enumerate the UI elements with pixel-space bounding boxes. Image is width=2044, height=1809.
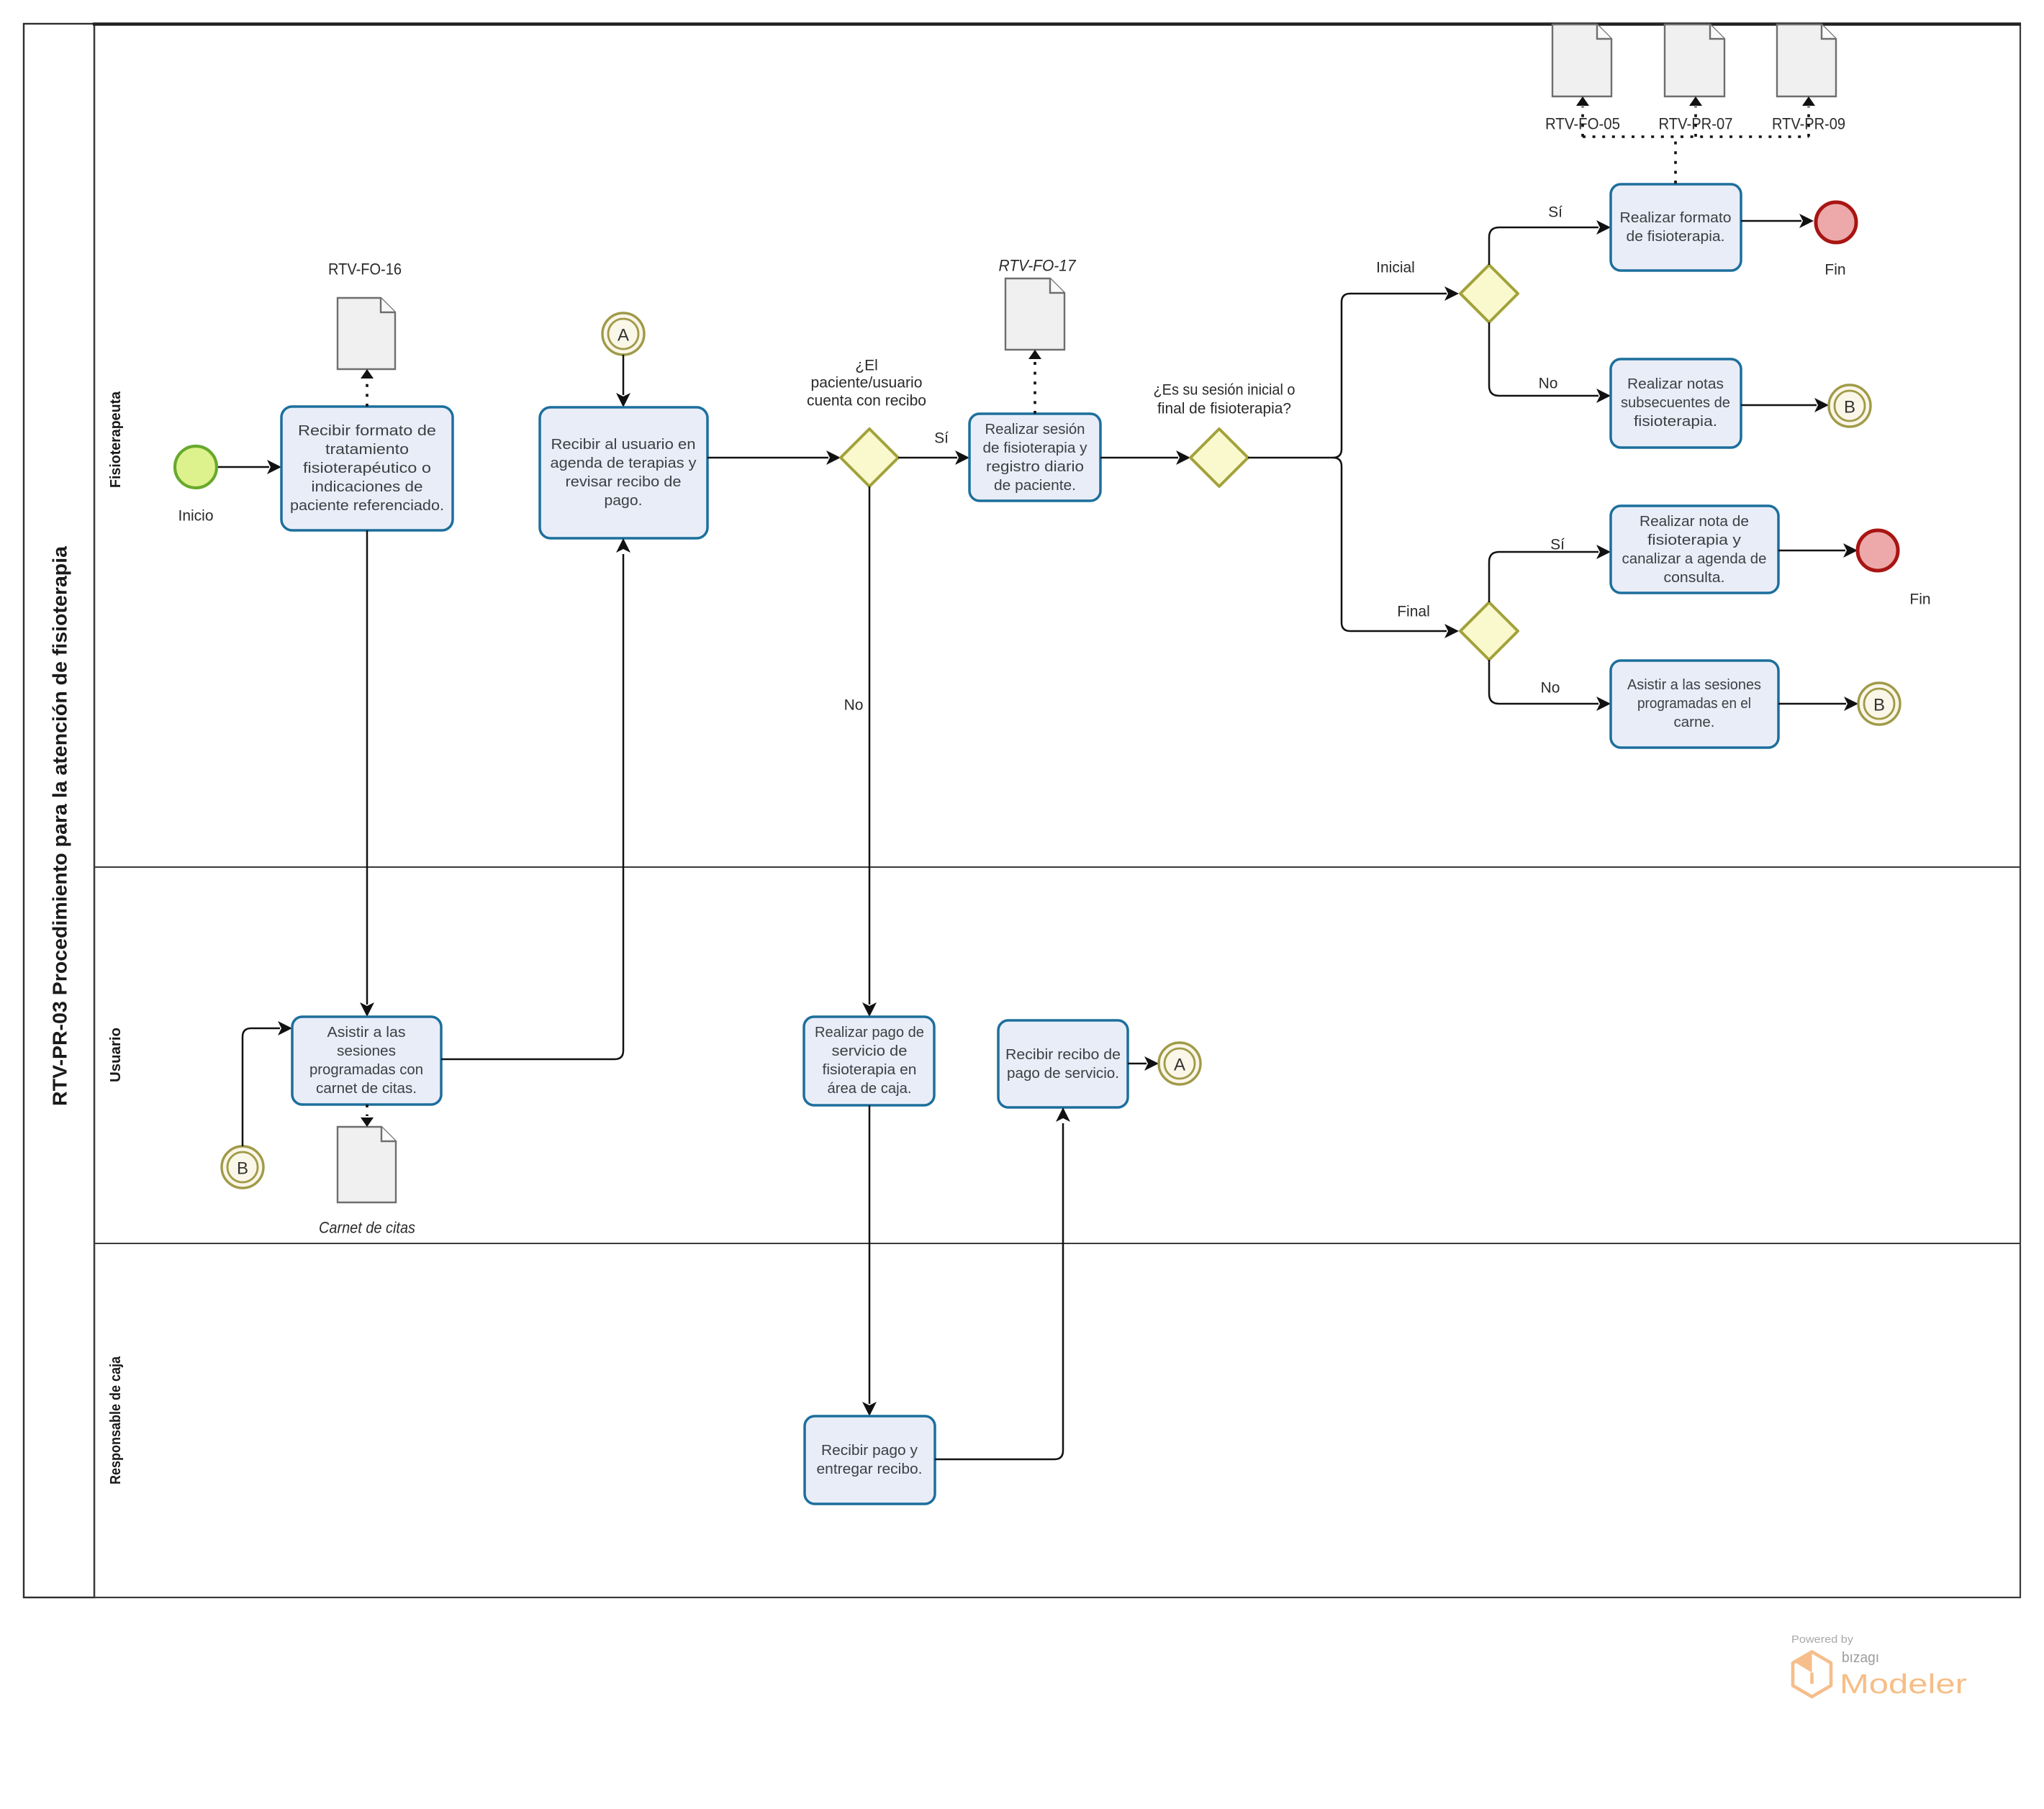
sequence flow: Realizar nota to end Fin 2 [1778, 543, 1858, 558]
svg-text:No: No [1541, 680, 1560, 697]
task: Realizar notas subsecuentes [1611, 359, 1741, 448]
svg-text:RTV-FO-16: RTV-FO-16 [328, 260, 402, 278]
document RTV-FO-05 [1545, 24, 1620, 133]
sequence flow: gateway Final to task Asistir carne [1489, 660, 1611, 711]
sequence flow: gateway Inicial to task Realizar formato [1489, 220, 1611, 265]
svg-text:carne.: carne. [1674, 715, 1715, 730]
svg-text:Fisioterapeuta: Fisioterapeuta [108, 391, 124, 488]
link event B (after asistir carne) [1858, 683, 1900, 725]
lane label Fisioterapeuta [108, 391, 124, 488]
sequence flow: task Recibir formato down to task Asistir (Usuario) [360, 530, 374, 1017]
sequence flow: gateway Final to task Realizar nota [1489, 545, 1611, 602]
task: Asistir a las sesiones programadas en el carne [1611, 661, 1778, 748]
svg-text:B: B [237, 1159, 248, 1179]
link event B (Usuario lane, incoming) [222, 1146, 263, 1188]
svg-text:A: A [618, 326, 629, 345]
lane label Responsable de caja [108, 1356, 124, 1484]
document RTV-FO-16 [328, 260, 402, 370]
svg-text:Inicial: Inicial [1376, 260, 1415, 276]
sequence flow: gateway recibo to task Realizar sesion [898, 450, 969, 465]
svg-text:Responsable de caja: Responsable de caja [108, 1356, 124, 1484]
svg-text:Recibir recibo de: Recibir recibo de [1005, 1047, 1121, 1063]
association: task Realizar sesion to RTV-FO-17 [1028, 350, 1041, 414]
label Inicial [1376, 260, 1415, 276]
svg-text:área de caja.: área de caja. [828, 1081, 912, 1097]
svg-text:revisar recibo de: revisar recibo de [566, 474, 682, 490]
sequence flow: start to task Recibir formato [217, 460, 281, 474]
label No (gateway Inicial) [1539, 376, 1558, 392]
gateway: Es su sesion inicial o final [1154, 382, 1295, 487]
task: Realizar sesion de fisioterapia y registro diario [969, 414, 1100, 501]
task: Realizar nota de fisioterapia y canalizar [1611, 506, 1778, 593]
lane divider Usuario/Responsable de caja [94, 1243, 2020, 1244]
task: Realizar formato de fisioterapia [1611, 184, 1741, 271]
sequence flow: Recibir recibo to link A [1128, 1056, 1159, 1071]
svg-text:subsecuentes de: subsecuentes de [1621, 395, 1730, 411]
svg-text:tratamiento: tratamiento [325, 442, 409, 458]
svg-text:Modeler: Modeler [1840, 1669, 1967, 1700]
svg-text:fisioterapia en: fisioterapia en [823, 1062, 917, 1078]
task: Recibir pago y entregar recibo [805, 1416, 935, 1504]
sequence flow: gateway Inicial to task Realizar notas [1489, 322, 1611, 403]
svg-text:canalizar a agenda de: canalizar a agenda de [1622, 551, 1767, 567]
lane divider Fisioterapeuta/Usuario [94, 866, 2020, 868]
svg-text:Realizar pago de: Realizar pago de [815, 1025, 924, 1040]
svg-text:Recibir al usuario en: Recibir al usuario en [551, 437, 696, 453]
svg-text:registro diario: registro diario [986, 459, 1084, 475]
svg-text:Usuario: Usuario [108, 1028, 124, 1082]
svg-text:carnet de citas.: carnet de citas. [316, 1081, 417, 1097]
svg-text:B: B [1844, 398, 1855, 417]
svg-text:Carnet de citas: Carnet de citas [319, 1219, 415, 1237]
svg-text:Recibir pago y: Recibir pago y [821, 1443, 918, 1459]
label No (gateway recibo) [844, 697, 864, 714]
svg-text:RTV-PR-09: RTV-PR-09 [1772, 115, 1845, 133]
svg-text:de fisioterapia.: de fisioterapia. [1627, 229, 1725, 245]
svg-text:Asistir a las sesiones: Asistir a las sesiones [1627, 677, 1761, 693]
gateway Inicial branch [1460, 265, 1518, 322]
svg-text:paciente/usuario: paciente/usuario [811, 375, 923, 391]
svg-text:RTV-FO-05: RTV-FO-05 [1545, 115, 1620, 133]
svg-text:de fisioterapia y: de fisioterapia y [983, 440, 1087, 456]
svg-text:Fin: Fin [1824, 262, 1845, 278]
svg-text:programadas con: programadas con [309, 1062, 423, 1078]
svg-text:pago.: pago. [605, 493, 643, 509]
sequence flow: Recibir pago right up to Recibir recibo [935, 1107, 1070, 1459]
pool title [49, 546, 71, 1106]
svg-text:consulta.: consulta. [1664, 570, 1725, 586]
svg-text:¿Es su sesión inicial o: ¿Es su sesión inicial o [1154, 382, 1295, 399]
document RTV-PR-07 [1659, 24, 1733, 133]
sequence flow: gateway inicial/final fork to gateway Final [1333, 458, 1459, 638]
gateway: El paciente/usuario cuenta con recibo [807, 358, 926, 487]
svg-text:Asistir a las: Asistir a las [327, 1025, 406, 1040]
task: Recibir formato de tratamiento fisioterapeutico [281, 407, 453, 530]
task: Asistir a las sesiones programadas con carnet [292, 1017, 441, 1105]
label Si (gateway Inicial) [1548, 204, 1563, 221]
sequence flow: gateway recibo down to task Realizar pago (Usuario) [862, 486, 877, 1017]
end event Fin (final) [1858, 530, 1931, 608]
svg-text:A: A [1174, 1056, 1185, 1075]
pool outer frame (title band) [24, 24, 94, 1597]
svg-text:No: No [844, 697, 864, 714]
svg-text:RTV-FO-17: RTV-FO-17 [999, 257, 1077, 275]
association: task Asistir to Carnet de citas [361, 1105, 374, 1127]
svg-text:Realizar notas: Realizar notas [1627, 376, 1724, 392]
svg-text:fisioterapéutico o: fisioterapéutico o [303, 461, 431, 476]
sequence flow: A to task Recibir al usuario [616, 355, 630, 407]
document Carnet de citas [319, 1127, 415, 1237]
association: task to RTV-FO-16 [361, 369, 374, 407]
start event Inicio [175, 446, 217, 525]
sequence flow: Realizar notas to link B [1741, 398, 1829, 412]
svg-text:Realizar formato: Realizar formato [1620, 210, 1732, 226]
svg-text:Fin: Fin [1909, 591, 1930, 608]
link event B (after notas) [1829, 385, 1871, 427]
svg-text:Powered by: Powered by [1791, 1634, 1854, 1646]
svg-text:programadas en el: programadas en el [1637, 696, 1751, 712]
label Si (gateway Final) [1550, 537, 1565, 553]
sequence flow: Realizar formato to end Fin [1741, 214, 1814, 228]
svg-text:Realizar sesión: Realizar sesión [985, 422, 1085, 437]
sequence flow: gateway inicial/final fork to gateway Inicial [1248, 286, 1459, 458]
svg-text:Realizar nota de: Realizar nota de [1640, 514, 1749, 530]
svg-text:final de fisioterapia?: final de fisioterapia? [1157, 401, 1291, 417]
bizagi modeler logo [1791, 1634, 1967, 1700]
label Si (gateway recibo) [934, 430, 949, 447]
sequence flow: task Asistir right up to task Recibir al usuario [441, 538, 630, 1059]
document RTV-FO-17 [999, 257, 1077, 350]
label No (gateway Final) [1541, 680, 1560, 697]
svg-text:Sí: Sí [1550, 537, 1565, 553]
svg-text:servicio de: servicio de [832, 1043, 908, 1059]
link event A (Usuario lane) [1159, 1043, 1200, 1084]
link event A (throw target) top [602, 313, 644, 355]
svg-text:Sí: Sí [934, 430, 949, 447]
association: Realizar formato to three documents [1576, 96, 1815, 183]
task: Recibir recibo de pago de servicio [998, 1020, 1128, 1107]
svg-text:Inicio: Inicio [178, 508, 213, 525]
svg-text:de paciente.: de paciente. [994, 478, 1076, 494]
svg-text:No: No [1539, 376, 1558, 392]
svg-text:RTV-PR-07: RTV-PR-07 [1659, 115, 1733, 133]
svg-text:agenda de terapias y: agenda de terapias y [551, 455, 697, 471]
sequence flow: Realizar pago down to Recibir pago [862, 1105, 877, 1416]
label Final [1397, 604, 1430, 620]
svg-text:¿El: ¿El [855, 358, 878, 374]
svg-text:bızagı: bızagı [1842, 1650, 1879, 1666]
gateway Final branch [1460, 602, 1518, 660]
svg-text:sesiones: sesiones [337, 1043, 396, 1059]
svg-text:Final: Final [1397, 604, 1430, 620]
lane label Usuario [108, 1028, 124, 1082]
svg-text:entregar recibo.: entregar recibo. [817, 1461, 923, 1477]
svg-text:pago de servicio.: pago de servicio. [1007, 1066, 1119, 1082]
svg-text:B: B [1873, 696, 1885, 715]
svg-text:cuenta con recibo: cuenta con recibo [807, 393, 926, 409]
sequence flow: task Realizar sesion to gateway inicial/final [1100, 450, 1190, 465]
svg-text:paciente referenciado.: paciente referenciado. [290, 498, 444, 514]
svg-text:fisioterapia.: fisioterapia. [1634, 414, 1717, 430]
sequence flow: Asistir carne to link B 2 [1778, 697, 1858, 711]
svg-text:fisioterapia y: fisioterapia y [1647, 532, 1741, 548]
end event Fin (inicial) [1816, 202, 1856, 278]
sequence flow: task Recibir al usuario to gateway recibo [707, 450, 841, 465]
svg-text:indicaciones de: indicaciones de [312, 479, 423, 495]
task: Realizar pago de servicio [804, 1017, 934, 1105]
document RTV-PR-09 [1772, 24, 1845, 133]
sequence flow: link B to task Asistir (Usuario) [243, 1021, 292, 1146]
task: Recibir al usuario en agenda de terapias [540, 407, 707, 538]
svg-text:Sí: Sí [1548, 204, 1563, 221]
svg-text:RTV-PR-03 Procedimiento para l: RTV-PR-03 Procedimiento para la atención… [49, 546, 71, 1106]
svg-text:Recibir formato de: Recibir formato de [298, 423, 436, 439]
